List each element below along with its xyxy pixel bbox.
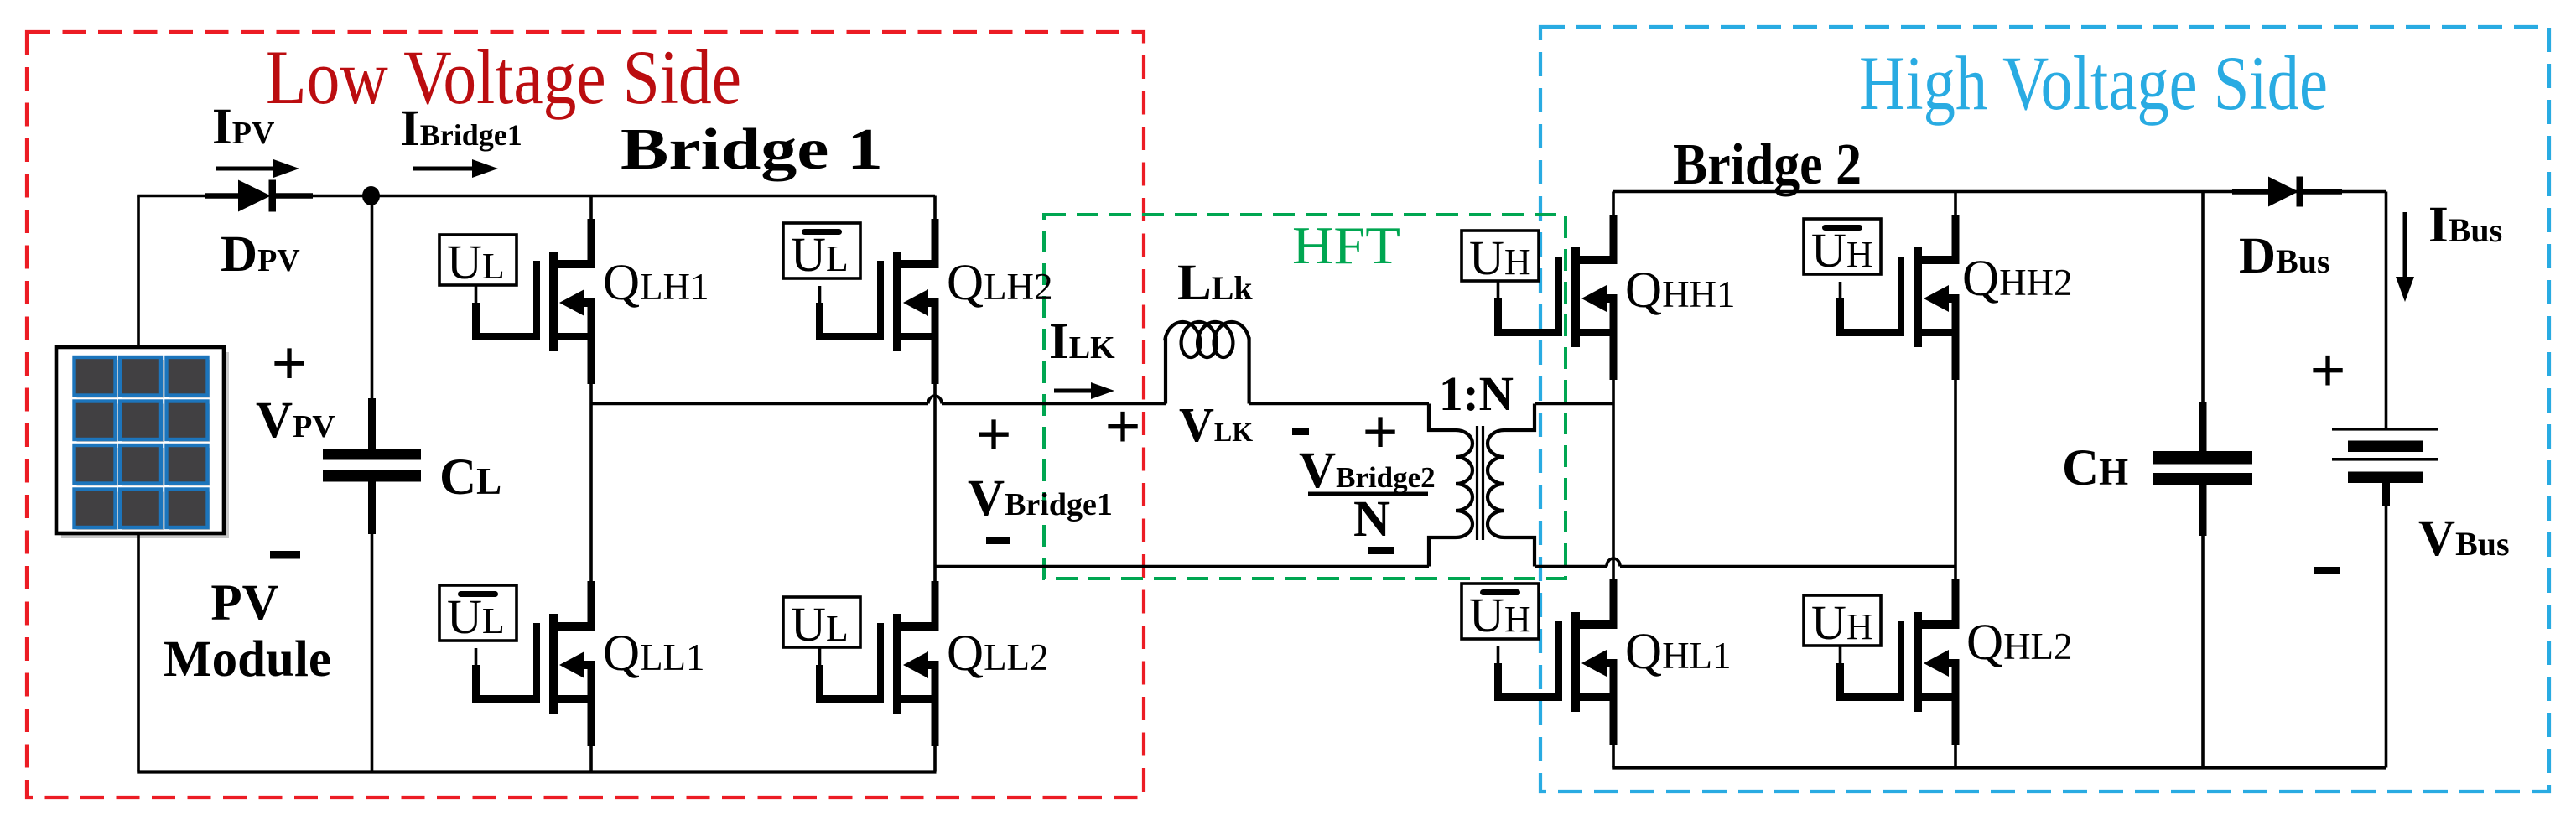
wire hop: upper output crosses right leg: [928, 396, 942, 404]
region box: Low Voltage Side (red dashed): [27, 32, 1144, 797]
svg-text:High Voltage Side: High Voltage Side: [1859, 40, 2328, 126]
label: minus of VBus: [2314, 567, 2340, 574]
transformer secondary winding: [1488, 404, 1535, 567]
node: junction dot at CL tap: [362, 186, 380, 205]
svg-text:Bridge 2: Bridge 2: [1673, 132, 1862, 197]
wire: upper output hop to inductor: [942, 402, 1166, 406]
capacitor CH top plate: [2153, 451, 2252, 465]
battery VBus bottom stub: [2382, 483, 2390, 506]
wire: QHH2 source to QHL2 drain: [1954, 380, 1957, 581]
svg-text:N: N: [1353, 491, 1390, 548]
wire: CL branch lower: [371, 481, 374, 772]
transformer core: [1476, 426, 1478, 540]
wire: top rail (diode DPV to Bridge1 right leg): [270, 195, 935, 198]
gate signal box for QLH2: [783, 223, 860, 282]
wire: QLL2 source to bottom rail corner: [933, 746, 937, 772]
transformer primary winding: [1429, 404, 1472, 567]
region box: HFT (green dashed): [1044, 215, 1566, 579]
gate signal box for QLL2: [783, 597, 860, 651]
capacitor CL lower stub: [368, 481, 376, 534]
wire: bottom rail bridge 1: [137, 770, 936, 773]
wire: CL branch upper: [371, 196, 374, 451]
battery VBus plate 4 (short thick): [2348, 472, 2423, 484]
svg-text:+: +: [2309, 335, 2345, 406]
transistor QLH1 (N-MOSFET): [472, 196, 595, 385]
svg-text:HFT: HFT: [1292, 215, 1400, 275]
battery VBus plate 3 (long): [2332, 458, 2438, 461]
transistor QLH2 (N-MOSFET): [816, 196, 939, 385]
label: minus of VBridge2/N: [1368, 547, 1394, 554]
svg-text:+: +: [975, 400, 1011, 470]
diode DBus triangle: [2268, 177, 2298, 207]
svg-text:Bridge 1: Bridge 1: [621, 117, 883, 182]
diode DPV thick cathode lead: [276, 193, 313, 199]
wire: secondary bottom toward bridge2: [1535, 565, 1607, 568]
current arrow IPV: [216, 167, 277, 171]
svg-text:+: +: [271, 329, 307, 399]
label: minus of VPV: [270, 551, 300, 559]
diode DBus thick cathode lead: [2303, 189, 2342, 195]
diode DPV thick anode lead: [205, 193, 241, 199]
current arrow IBridge1: [413, 167, 475, 171]
svg-text:+: +: [1362, 397, 1398, 468]
diode DBus cathode bar: [2297, 177, 2304, 207]
diode DPV triangle: [238, 180, 271, 212]
current arrow IBus: [2403, 212, 2407, 280]
transistor QLL1 (N-MOSFET): [472, 581, 595, 746]
svg-text:+: +: [1104, 392, 1140, 462]
wire: lower output from bridge1 right leg to transformer: [935, 565, 1429, 568]
wire: PV top lead up to top rail: [137, 196, 140, 348]
diode DPV cathode bar: [269, 180, 277, 212]
capacitor CL top plate: [323, 449, 421, 460]
wire: inductor to transformer primary: [1249, 402, 1429, 406]
PV module (solar panel): [56, 347, 229, 538]
label: minus of VLK: [1292, 428, 1309, 435]
label: minus of VBridge1: [986, 537, 1010, 544]
svg-text:Low Voltage Side: Low Voltage Side: [266, 34, 741, 120]
gate signal box for QHH2: [1804, 219, 1881, 278]
transistor QHH2 (N-MOSFET): [1836, 192, 1960, 381]
wire: bridge1 left leg mid node to QLL1 drain: [589, 404, 593, 586]
svg-text:PV: PV: [210, 575, 278, 631]
wire: battery branch upper: [2385, 192, 2388, 429]
wire: QHH1 source through mid node and hop to QHL1: [1612, 380, 1615, 581]
battery VBus plate 1 (long): [2332, 428, 2438, 431]
wire: battery branch lower: [2385, 506, 2388, 768]
capacitor CH upper stub: [2199, 402, 2207, 453]
gate signal box for QHL1: [1462, 584, 1539, 642]
wire: top rail (PV corner to diode DPV): [137, 195, 210, 198]
capacitor CH lower stub: [2199, 485, 2207, 536]
wire: transformer secondary top to bridge2 left leg: [1535, 402, 1613, 406]
region box: High Voltage Side (blue dashed): [1540, 27, 2549, 792]
wire: QHL2 source to bottom rail: [1954, 745, 1957, 768]
wire: bridge2 bottom rail: [1612, 766, 2386, 769]
svg-text:1:N: 1:N: [1439, 366, 1514, 421]
transistor QHL1 (N-MOSFET): [1494, 579, 1618, 745]
capacitor CL upper stub: [368, 398, 376, 450]
wire: QLH1 source to mid node: [589, 384, 593, 404]
wire: QLL1 source to bottom rail: [589, 746, 593, 772]
gate signal box for QLL1: [439, 585, 517, 644]
gate signal box for QLH1: [439, 235, 517, 289]
svg-text:Module: Module: [164, 631, 331, 688]
current arrow ILK: [1054, 389, 1094, 393]
wire: lower output hop to bridge2 right leg: [1620, 565, 1955, 568]
inductor LLk coil: [1165, 322, 1249, 404]
wire hop: lower output crosses bridge2 left leg: [1607, 558, 1620, 567]
wire: QHL1 source to bottom rail: [1612, 745, 1615, 768]
capacitor CH bottom plate: [2153, 473, 2252, 485]
transistor QHL2 (N-MOSFET): [1836, 579, 1960, 745]
wire: CH branch lower: [2201, 485, 2205, 768]
capacitor CL bottom plate: [323, 470, 421, 482]
gate signal box for QHL2: [1804, 595, 1881, 650]
wire: QLH2 source down through hop to QLL2 drain: [933, 384, 937, 585]
wire: bridge2 top rail: [1613, 190, 2386, 194]
gate signal box for QHH1: [1462, 231, 1539, 285]
battery VBus plate 2 (short thick): [2348, 441, 2423, 453]
transistor QLL2 (N-MOSFET): [816, 581, 939, 746]
wire: upper output from bridge1 left leg: [591, 402, 928, 406]
fraction bar of VBridge2/N: [1308, 492, 1428, 497]
wire: PV bottom lead: [137, 533, 140, 772]
transistor QHH1 (N-MOSFET): [1494, 192, 1618, 381]
wire: CH branch upper: [2201, 192, 2205, 454]
diode DBus thick anode lead: [2232, 189, 2270, 195]
